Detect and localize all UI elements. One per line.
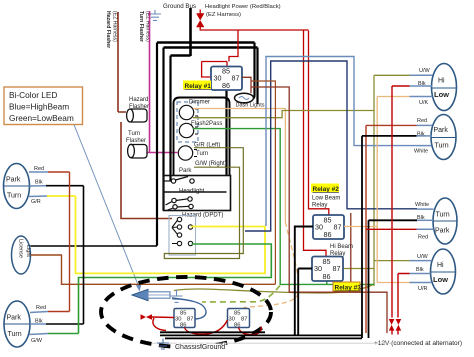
diode D3 <box>396 319 402 331</box>
wire LED to relay A (navy) <box>172 298 206 319</box>
svg-text:Low: Low <box>433 275 448 284</box>
svg-text:(EZ Harness): (EZ Harness) <box>112 11 118 42</box>
wire steel blue loop (front right turn) <box>266 57 417 227</box>
wire green hazard to rear-left turn <box>79 244 272 334</box>
wire L1 red <box>48 171 70 173</box>
wire olive high beam net <box>174 75 410 293</box>
label Relay #3 <box>333 282 361 292</box>
svg-text:86: 86 <box>323 272 331 281</box>
wire L1 G/R yellow <box>47 195 76 197</box>
svg-text:Turn: Turn <box>128 131 140 137</box>
wire L3 red <box>48 311 70 313</box>
wire turn flasher feed (magenta) <box>147 11 178 153</box>
switch panel frame <box>174 98 230 176</box>
svg-text:Turn: Turn <box>436 212 450 219</box>
label Turn Flasher (EZ Harness) vertical <box>138 11 151 42</box>
diode D4 (in oval, red) <box>141 314 153 320</box>
lamp L3 rear-left park/turn <box>4 301 30 347</box>
svg-text:Hazard Flasher: Hazard Flasher <box>105 11 111 48</box>
svg-text:Blk: Blk <box>35 180 43 186</box>
svg-text:85: 85 <box>234 311 240 317</box>
hazard DPDT switch box <box>169 216 196 256</box>
svg-text:30: 30 <box>314 264 322 273</box>
svg-text:87: 87 <box>334 223 342 232</box>
chassis oval dashed <box>101 277 271 347</box>
svg-text:Red: Red <box>417 118 427 124</box>
svg-text:Light: Light <box>25 245 31 257</box>
svg-text:Low Beam: Low Beam <box>312 196 340 202</box>
svg-text:Blue=HighBeam: Blue=HighBeam <box>9 102 69 112</box>
dimmer switch <box>179 105 198 119</box>
wire tan dashed into chassis oval <box>244 222 299 308</box>
lamp L2 license light <box>12 236 32 274</box>
wire green F2P to relay3-86 <box>193 129 374 285</box>
relay RB (in oval) <box>228 309 250 329</box>
wire L3 G/W green <box>48 333 79 335</box>
flash2pass switch <box>179 123 198 137</box>
svg-text:Turn: Turn <box>435 143 449 150</box>
svg-text:(EZ Harness): (EZ Harness) <box>206 12 241 18</box>
svg-text:G/W (Right): G/W (Right) <box>195 161 227 167</box>
Bi-Color LED note box <box>4 87 83 125</box>
turn flasher component <box>128 144 147 158</box>
svg-text:Turn: Turn <box>196 151 208 157</box>
wire hazard flasher feed (maroon) <box>118 12 172 219</box>
wire relay1-87 to dash lights (dark red) <box>242 77 251 93</box>
svg-text:Red: Red <box>34 166 44 172</box>
wire red in-oval <box>152 317 261 335</box>
stub wires lamp R2 <box>417 125 433 145</box>
svg-text:30: 30 <box>214 74 222 83</box>
relay R3 <box>312 257 343 282</box>
svg-text:Park: Park <box>7 315 22 322</box>
svg-text:Hi: Hi <box>438 78 445 85</box>
wire left vertical red (park feed) <box>69 172 71 312</box>
LED ground symbol <box>171 290 183 303</box>
wire L1 blk <box>46 185 84 187</box>
wire left vertical black <box>83 186 85 324</box>
svg-text:85: 85 <box>323 257 331 266</box>
wire black front blk <box>362 136 417 338</box>
wire maroon vertical short <box>350 213 352 292</box>
svg-text:Green=LowBeam: Green=LowBeam <box>9 113 74 123</box>
svg-text:Park: Park <box>179 168 192 174</box>
hazard flasher component <box>127 109 147 122</box>
svg-text:U/K: U/K <box>419 100 429 106</box>
svg-text:G/W: G/W <box>31 338 43 344</box>
svg-text:87: 87 <box>187 316 193 322</box>
LED indicator symbol <box>132 289 170 300</box>
svg-text:Flasher: Flasher <box>129 104 149 110</box>
svg-text:Bi-Color LED: Bi-Color LED <box>9 90 57 100</box>
svg-text:Low: Low <box>434 90 449 99</box>
label Relay #1 <box>183 81 211 91</box>
lamp L1 front-left park/turn <box>4 164 30 209</box>
svg-text:30: 30 <box>315 223 323 232</box>
svg-text:86: 86 <box>222 81 230 90</box>
wire maroon vertical long <box>252 87 388 333</box>
svg-text:Dash Lights: Dash Lights <box>236 103 265 109</box>
svg-text:Relay #2: Relay #2 <box>313 186 340 193</box>
svg-text:White: White <box>415 202 429 208</box>
wire dark red front park feed <box>366 125 417 333</box>
wire license blk <box>31 245 158 247</box>
svg-text:Chassis Ground: Chassis Ground <box>175 344 225 351</box>
park switch <box>164 177 195 184</box>
svg-text:86: 86 <box>180 322 186 328</box>
svg-text:G/R: G/R <box>31 199 41 205</box>
svg-text:Turn: Turn <box>8 331 22 338</box>
svg-text:85: 85 <box>222 67 230 76</box>
headlight switch (double pole) <box>166 197 194 211</box>
stub wires lamp L1 <box>29 172 48 197</box>
ground bus vertical branches <box>157 43 258 246</box>
svg-text:87: 87 <box>241 316 247 322</box>
wire headlight power (red) top run <box>200 27 329 257</box>
diode D1 headlight power <box>197 14 205 28</box>
relay RA (in oval) <box>174 309 195 329</box>
svg-text:Dimmer: Dimmer <box>189 100 210 106</box>
switch panel: dashed selector box <box>177 102 198 142</box>
svg-text:Relay #1: Relay #1 <box>185 83 212 90</box>
wire brown vertical <box>252 81 276 284</box>
svg-text:Turn: Turn <box>7 193 21 200</box>
wire navy loop (rear right turn) <box>245 61 417 231</box>
svg-text:License: License <box>18 239 24 258</box>
svg-text:Relay: Relay <box>330 251 345 257</box>
svg-text:Red: Red <box>36 305 46 311</box>
ground bus black trunk <box>157 8 258 56</box>
lamp R3 rear turn/park <box>433 198 457 244</box>
lamp R1 front hi/low <box>432 64 457 111</box>
stub wires lamp R4 <box>410 261 432 283</box>
chassis ground bus bars <box>160 332 362 338</box>
ground symbol (ground bus) <box>149 10 161 20</box>
stub wires lamp R3 <box>417 209 434 229</box>
wire +12V red risers <box>366 86 417 335</box>
faint separator line <box>152 342 398 344</box>
park/headlight switch frame <box>164 176 231 211</box>
svg-text:Flasher: Flasher <box>126 138 146 144</box>
wire relay 30 black net <box>295 227 313 336</box>
svg-text:Blk: Blk <box>416 267 424 273</box>
dash lights lamp <box>235 93 254 103</box>
svg-text:Park: Park <box>6 177 21 184</box>
wire license brown <box>31 255 276 284</box>
wire G/R G/W olive S-net <box>164 148 243 259</box>
lamp R4 rear hi/low <box>431 249 456 294</box>
svg-text:U/R: U/R <box>418 286 428 292</box>
label Hazard Flasher (EZ Harness) vertical <box>105 11 118 48</box>
wire dashed green (in oval) <box>202 286 280 303</box>
annotation pointer line to LED <box>74 125 139 286</box>
relay R1 <box>211 67 242 91</box>
svg-text:Park: Park <box>435 228 450 235</box>
stub wires lamp R1 <box>410 75 433 96</box>
wire dimmer tan <box>193 109 285 223</box>
svg-text:Turn Flasher: Turn Flasher <box>138 11 144 42</box>
svg-text:Park: Park <box>434 127 449 134</box>
svg-text:87: 87 <box>333 264 341 273</box>
svg-text:Hi Beam: Hi Beam <box>330 244 353 250</box>
relay R2 <box>313 215 344 239</box>
diode D2 <box>389 319 395 331</box>
svg-text:85: 85 <box>324 216 332 225</box>
wire relay2-87 tan low beam net <box>344 97 410 283</box>
svg-text:86: 86 <box>234 322 240 328</box>
svg-text:Flash2Pass: Flash2Pass <box>191 121 222 127</box>
wire black rear blk <box>369 220 418 338</box>
svg-text:Relay: Relay <box>312 203 327 209</box>
svg-text:Red: Red <box>418 235 428 241</box>
svg-text:U/W: U/W <box>419 68 431 74</box>
svg-text:86: 86 <box>324 230 332 239</box>
wire L3 blk <box>46 323 84 325</box>
hazard DPDT contacts <box>172 217 193 245</box>
svg-text:Headlight Power (Red/Black): Headlight Power (Red/Black) <box>205 4 281 10</box>
svg-text:87: 87 <box>232 74 240 83</box>
svg-text:Relay #3: Relay #3 <box>335 285 362 292</box>
svg-text:White: White <box>414 149 428 155</box>
label Relay #2 <box>311 184 340 209</box>
svg-text:Hazard: Hazard <box>129 97 148 103</box>
wire yellow G/R net (front-left turn) <box>76 196 266 273</box>
svg-text:Hi: Hi <box>437 262 444 269</box>
stub wires lamp L3 <box>29 312 48 335</box>
lamp R2 front park/turn <box>431 115 456 160</box>
turn switch <box>178 146 197 160</box>
svg-text:U/W: U/W <box>417 254 429 260</box>
chassis ground symbol <box>157 339 169 350</box>
